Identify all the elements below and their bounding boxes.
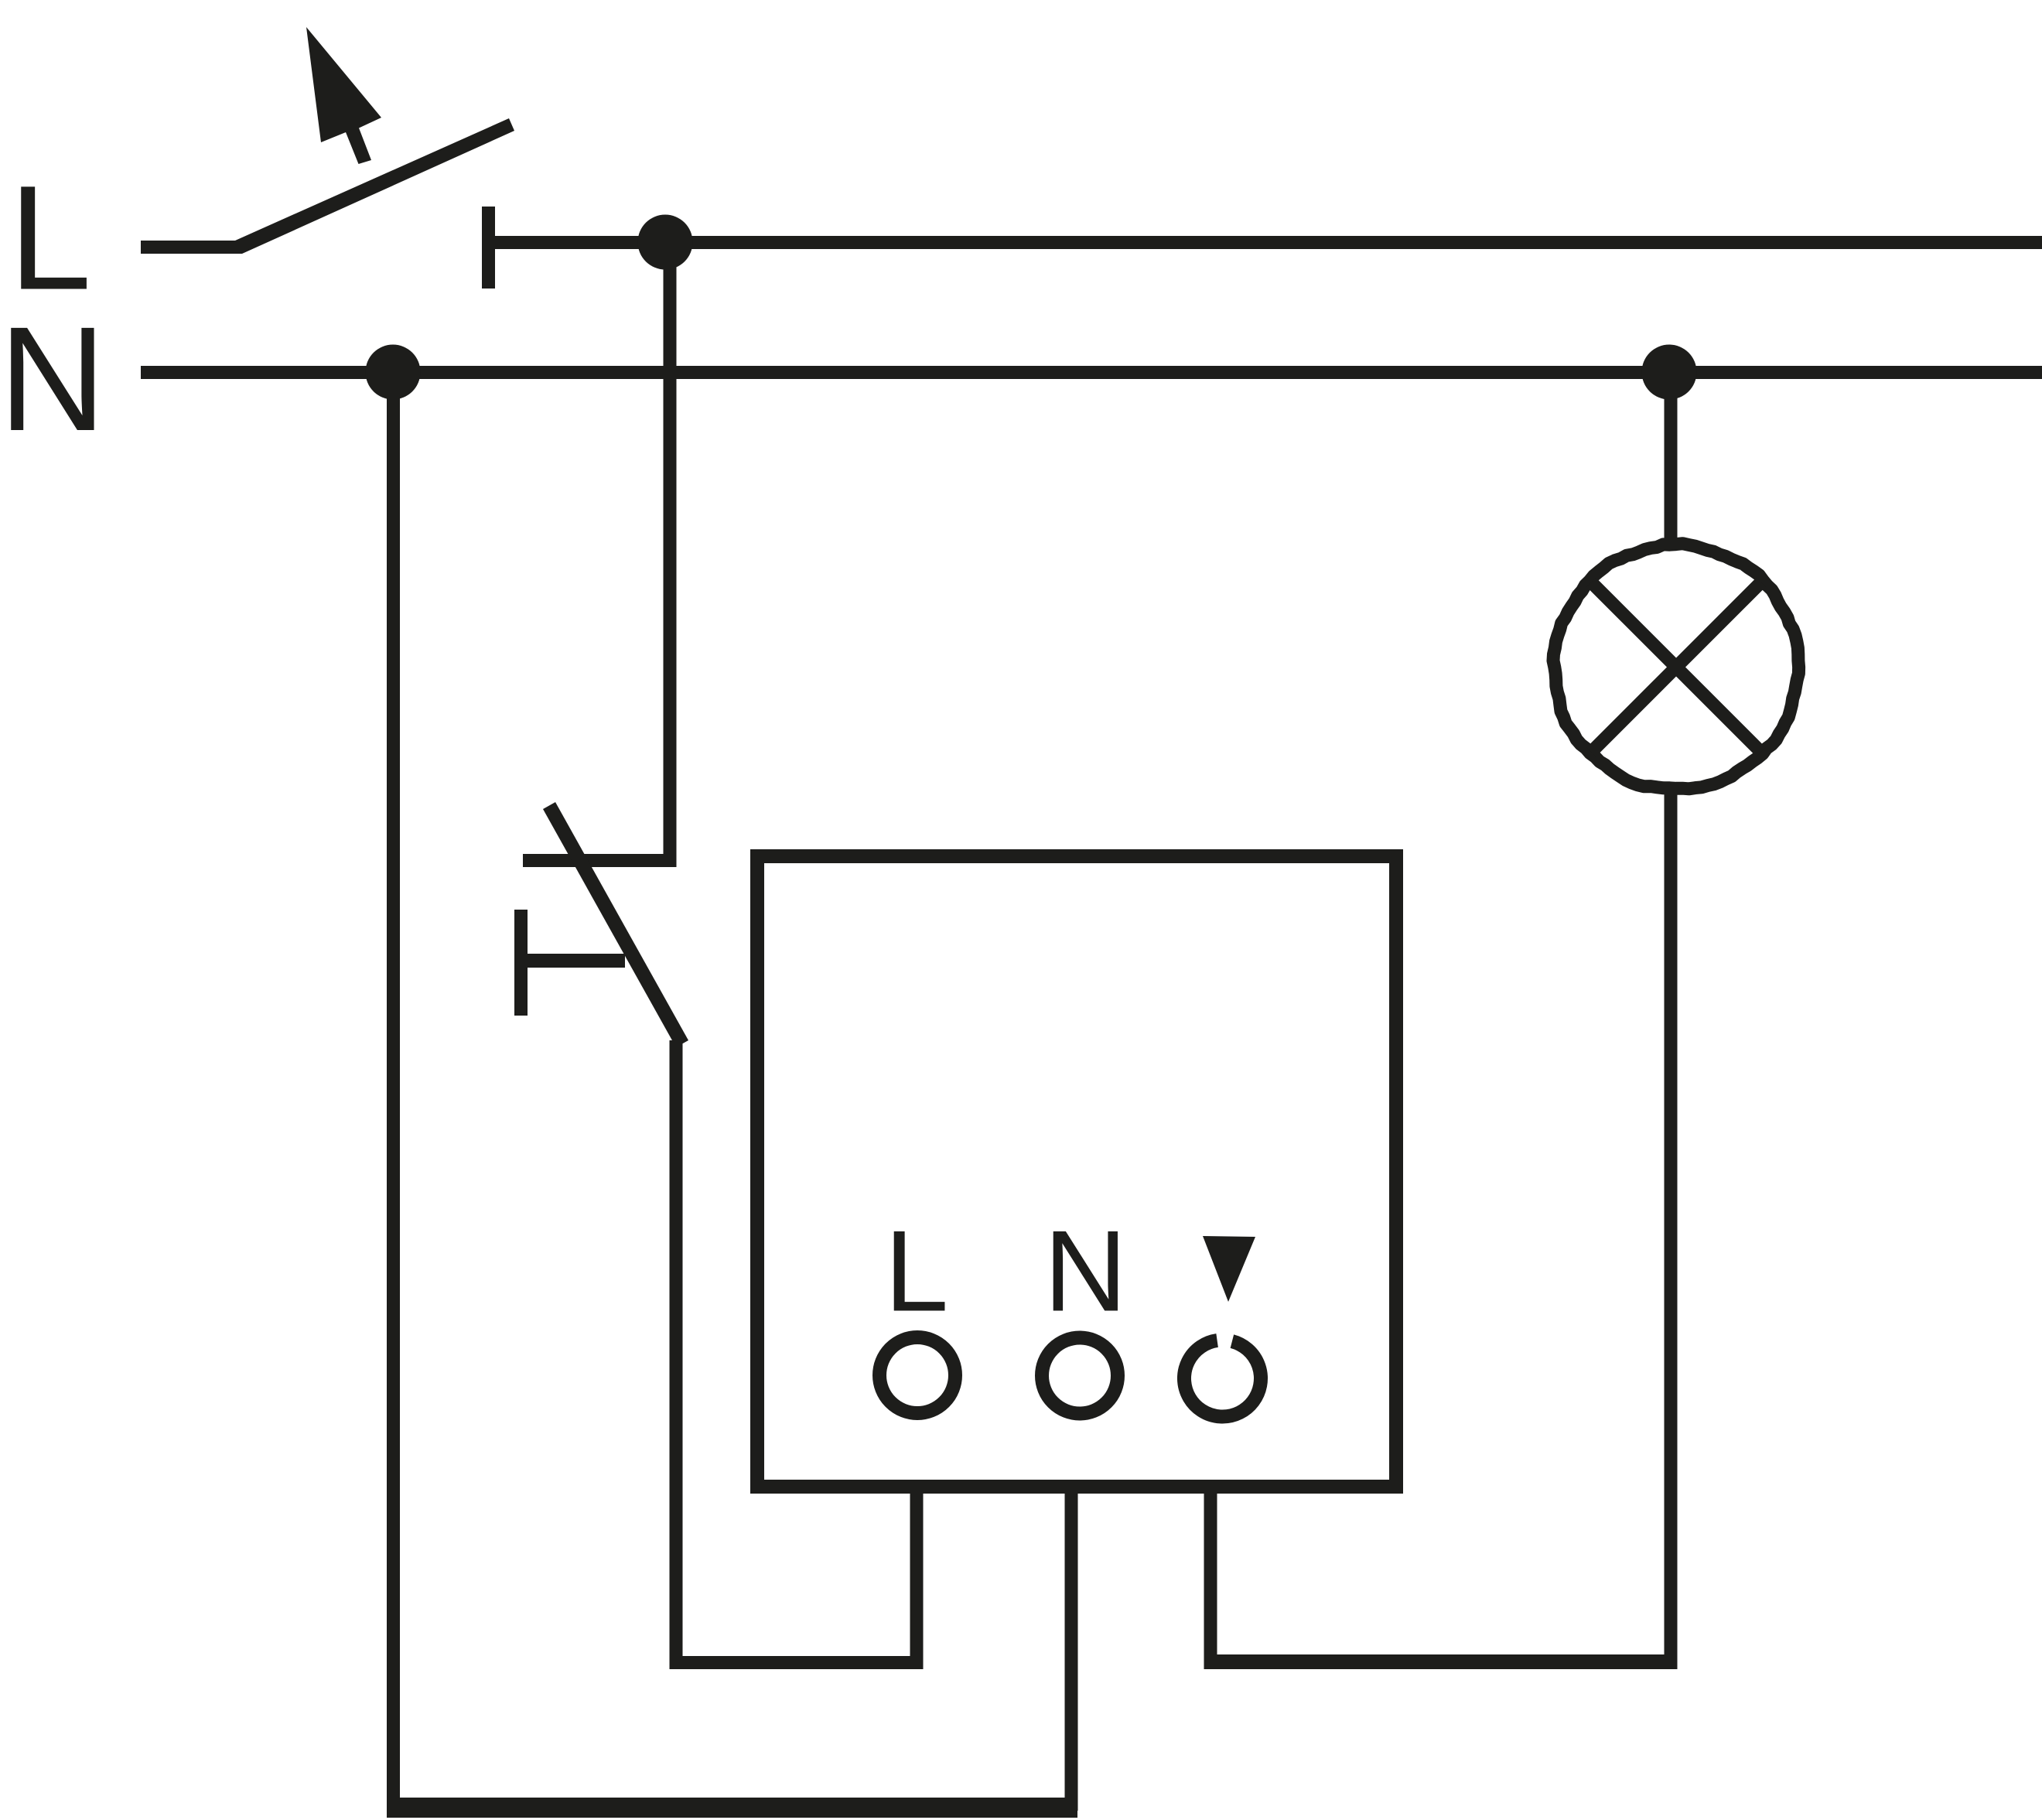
junction dot C [1642,345,1697,400]
lamp E1 cross stroke 2 [1591,582,1760,752]
svg-text:L: L [885,1207,949,1336]
connector output terminal to lamp [1204,1654,1678,1669]
push-button S2 blade [543,802,688,1047]
switch S1 actuator arrow [306,27,381,164]
push-button S2 top lead [523,854,676,867]
push-button S2 actuator rod [523,954,625,968]
terminal circle output with gap [1184,1340,1261,1417]
push-button bottom wire [670,1040,683,1669]
lamp E1 cross stroke 1 [1591,582,1760,752]
device L terminal wire [910,1487,924,1669]
terminal circle N [1042,1338,1118,1414]
terminal circle L [879,1337,955,1413]
lamp E1 circle [1553,544,1799,789]
bottom rail segment 2 [393,1805,1077,1818]
svg-text:N: N [0,295,106,462]
wire N bus (second horizontal) [141,366,2042,379]
device N terminal wire [1065,1487,1078,1811]
push-button S2 actuator bar [514,910,528,1016]
switch S1 blade [235,118,514,254]
junction dot A [638,215,693,270]
wire node B down to bottom rail [387,372,400,1818]
junction dot B [366,345,421,400]
lamp bottom wire [1665,788,1678,1669]
device output label triangle [1203,1236,1255,1302]
switch S1 fixed contact bar [482,207,495,289]
wire node A down to push-button [664,242,677,867]
bottom rail segment 1 [387,1798,1067,1811]
device output terminal wire [1204,1487,1217,1669]
connector push-button to L terminal [670,1656,924,1669]
device box U1 [757,856,1396,1487]
wire node C down to lamp [1665,372,1678,546]
svg-text:N: N [1044,1207,1128,1336]
wire L bus (top horizontal) [495,236,2042,249]
switch S1 lead wire from L [141,241,242,254]
